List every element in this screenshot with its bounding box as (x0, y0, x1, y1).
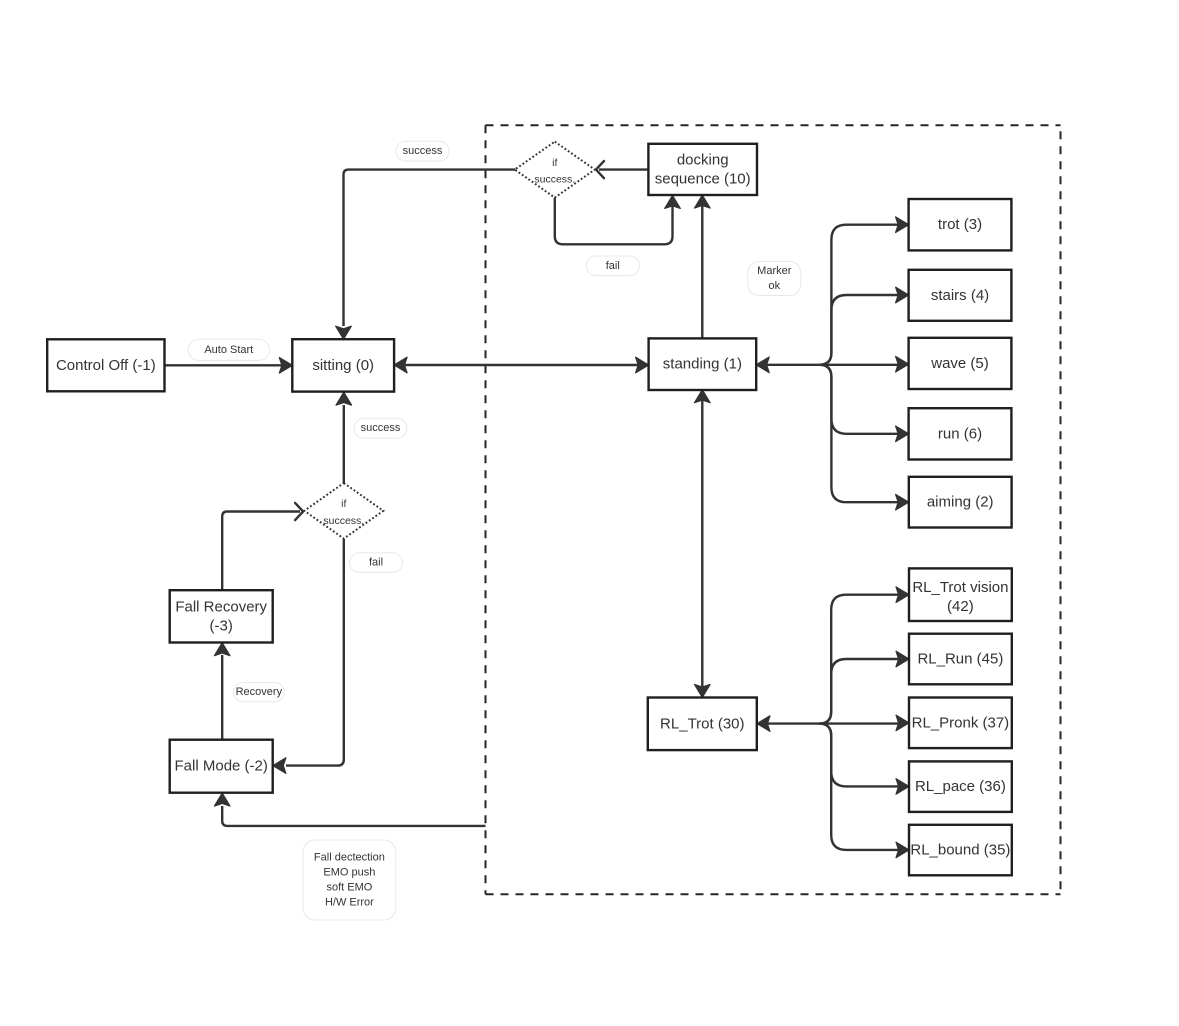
svg-text:Fall Mode (-2): Fall Mode (-2) (175, 758, 268, 775)
svg-text:RL_Pronk (37): RL_Pronk (37) (912, 714, 1010, 731)
svg-text:(42): (42) (947, 598, 974, 615)
svg-text:Fall dectection: Fall dectection (314, 852, 385, 864)
svg-text:success.: success. (534, 174, 575, 186)
svg-text:RL_pace (36): RL_pace (36) (915, 778, 1006, 795)
svg-text:Auto Start: Auto Start (204, 344, 253, 356)
svg-text:Control Off (-1): Control Off (-1) (56, 357, 156, 374)
svg-text:trot (3): trot (3) (938, 216, 982, 233)
svg-text:run (6): run (6) (938, 425, 982, 442)
svg-text:docking: docking (677, 151, 729, 168)
svg-text:success: success (361, 422, 401, 434)
svg-text:sitting (0): sitting (0) (312, 357, 374, 374)
svg-text:RL_Run (45): RL_Run (45) (917, 651, 1003, 668)
svg-text:if: if (341, 498, 346, 510)
svg-text:success.: success. (323, 515, 364, 527)
svg-text:stairs (4): stairs (4) (931, 287, 989, 304)
svg-text:Recovery: Recovery (236, 686, 283, 698)
svg-text:(-3): (-3) (210, 617, 233, 634)
svg-text:soft EMO: soft EMO (326, 882, 372, 894)
svg-text:RL_Trot vision: RL_Trot vision (912, 579, 1008, 596)
svg-text:success: success (403, 145, 443, 157)
svg-text:EMO push: EMO push (323, 867, 375, 879)
svg-text:Marker: Marker (757, 265, 792, 277)
svg-text:fail: fail (369, 557, 383, 569)
svg-text:fail: fail (606, 260, 620, 272)
svg-text:aiming (2): aiming (2) (927, 494, 994, 511)
svg-text:ok: ok (768, 280, 780, 292)
svg-text:if: if (552, 157, 557, 169)
svg-text:H/W Error: H/W Error (325, 897, 374, 909)
svg-text:RL_bound (35): RL_bound (35) (910, 842, 1010, 859)
svg-text:RL_Trot (30): RL_Trot (30) (660, 715, 744, 732)
svg-text:standing (1): standing (1) (663, 356, 742, 373)
svg-text:Fall Recovery: Fall Recovery (175, 598, 267, 615)
svg-text:sequence (10): sequence (10) (655, 170, 751, 187)
svg-text:wave (5): wave (5) (930, 355, 989, 372)
